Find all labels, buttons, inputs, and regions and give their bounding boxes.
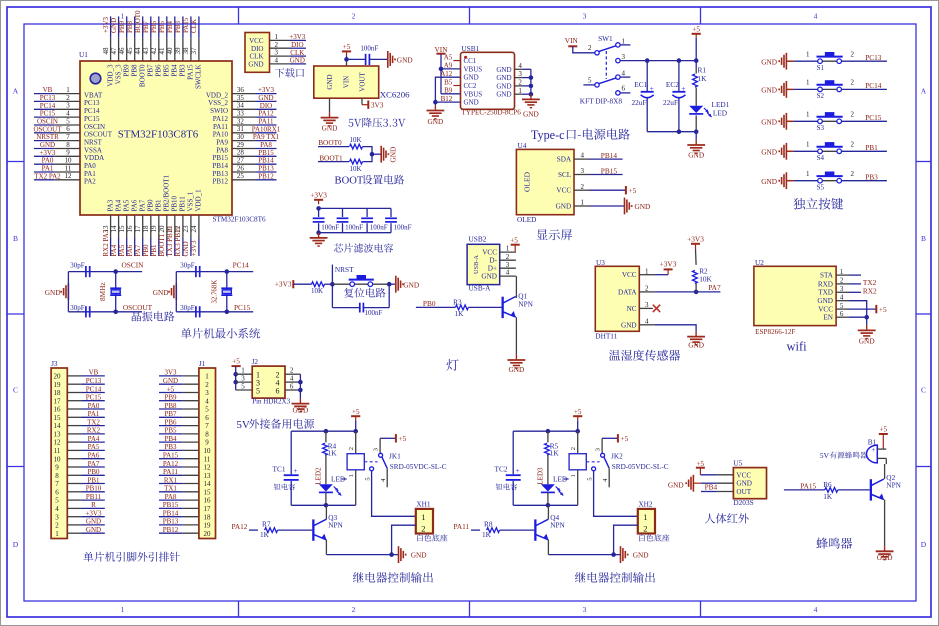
reset push button — [332, 275, 389, 287]
svg-text:RX2 PA3: RX2 PA3 — [102, 229, 110, 256]
svg-text:1K: 1K — [455, 309, 465, 318]
svg-text:GND: GND — [877, 553, 893, 562]
svg-text:PB5: PB5 — [158, 20, 166, 33]
svg-text:LED2: LED2 — [315, 467, 323, 485]
svg-text:RX2: RX2 — [863, 287, 877, 296]
svg-text:GND: GND — [248, 61, 263, 69]
USB2 pin 3 — [500, 261, 516, 269]
svg-text:+3V3: +3V3 — [687, 234, 704, 243]
svg-text:4: 4 — [602, 478, 609, 482]
svg-text:VCC: VCC — [818, 306, 833, 314]
svg-text:47: 47 — [110, 47, 118, 55]
svg-text:16: 16 — [204, 497, 212, 505]
svg-text:+: + — [871, 446, 875, 454]
svg-text:PB6: PB6 — [155, 64, 163, 77]
svg-text:30pF: 30pF — [70, 261, 85, 269]
svg-text:PB1: PB1 — [865, 143, 878, 152]
svg-text:+3V3: +3V3 — [102, 16, 110, 33]
DHT11 pin1 VCC to +3V3 — [639, 260, 676, 276]
svg-text:PB1: PB1 — [155, 199, 163, 212]
junction LED bottom — [694, 129, 699, 134]
svg-text:GND: GND — [496, 82, 511, 90]
svg-text:2: 2 — [588, 44, 592, 52]
junction R top — [546, 429, 551, 434]
svg-text:2: 2 — [66, 94, 70, 102]
svg-text:Type-c: Type-c — [531, 128, 565, 142]
svg-text:+5: +5 — [692, 25, 700, 34]
svg-text:GND: GND — [86, 526, 101, 534]
ground below Q2 — [876, 546, 894, 562]
wifi pin 1 — [836, 268, 849, 276]
svg-text:4: 4 — [380, 478, 387, 482]
svg-text:GND: GND — [817, 297, 833, 305]
svg-text:PB12: PB12 — [212, 178, 228, 186]
J3 pin 11 net PA5 — [67, 443, 105, 451]
svg-text:U5: U5 — [733, 459, 742, 468]
USB1 GND pin 2 — [515, 79, 531, 87]
svg-text:1: 1 — [806, 79, 810, 87]
power +5 above relay JK2 — [573, 407, 582, 420]
wifi STA wire — [849, 274, 861, 276]
svg-text:12: 12 — [65, 172, 73, 180]
svg-text:20: 20 — [158, 225, 166, 233]
filter cap bus bottom — [319, 232, 391, 234]
svg-text:GND: GND — [736, 480, 752, 488]
svg-text:DIO: DIO — [251, 45, 263, 53]
wires USB1 left pins — [435, 61, 460, 106]
svg-text:3: 3 — [594, 448, 601, 451]
svg-text:29: 29 — [237, 141, 245, 149]
svg-text:PA6: PA6 — [88, 452, 100, 460]
svg-text:+5: +5 — [510, 235, 518, 244]
J1 pin 2 net GND — [159, 377, 199, 385]
svg-text:PB3: PB3 — [164, 443, 177, 451]
svg-text:20: 20 — [54, 373, 62, 381]
svg-text:GND: GND — [761, 147, 777, 156]
regulator VOUT to 3V3 — [362, 98, 384, 109]
J1 pin 1 net 3V3 — [159, 369, 199, 377]
J1 pin 7 net PB6 — [159, 418, 199, 426]
transistor Q4 NPN — [534, 505, 565, 554]
svg-text:DIO: DIO — [260, 102, 272, 110]
svg-text:S1: S1 — [817, 64, 825, 72]
capacitor EC2 22uF electrolytic — [663, 61, 686, 132]
svg-text:1K: 1K — [482, 530, 492, 539]
svg-text:2: 2 — [581, 183, 585, 191]
junction LED bottom — [324, 503, 329, 508]
svg-text:2: 2 — [645, 285, 649, 293]
resistor R3 1K — [453, 298, 501, 319]
svg-text:31: 31 — [237, 125, 245, 133]
svg-text:GND: GND — [761, 117, 777, 126]
wire relay top rail — [291, 420, 356, 431]
USB2 pin 2 — [500, 253, 516, 261]
MCU pin 7 (NRST) left, net NRSTR — [34, 133, 103, 146]
wire XH2 pin2 to gnd rail — [614, 525, 638, 554]
power VIN at type-c — [435, 45, 449, 54]
svg-text:PC14: PC14 — [84, 107, 100, 115]
svg-text:32: 32 — [237, 117, 245, 125]
svg-text:PB12: PB12 — [163, 526, 179, 534]
title 蜂鸣器 — [816, 538, 827, 549]
svg-text:PC13: PC13 — [40, 94, 56, 102]
svg-text:PA3: PA3 — [106, 199, 114, 211]
MCU pin 41 (PB5) top, net PB5 — [158, 16, 171, 76]
pin header J2 HDR2X3 body — [252, 357, 291, 406]
MCU pin 25 (PB12) right, net PB12 — [212, 172, 276, 185]
svg-text:4: 4 — [66, 110, 70, 118]
svg-text:EC2: EC2 — [666, 80, 679, 89]
svg-text:CLK: CLK — [250, 53, 264, 61]
svg-text:CLK: CLK — [290, 49, 304, 57]
svg-text:PA5: PA5 — [88, 443, 100, 451]
svg-text:2: 2 — [840, 277, 844, 285]
svg-text:1K: 1K — [550, 448, 560, 457]
capacitor TC1 tantalum — [273, 431, 299, 505]
ground below type-c left — [427, 105, 445, 126]
svg-text:1K: 1K — [823, 492, 833, 501]
svg-text:20: 20 — [204, 530, 212, 538]
relay JK1 contacts — [364, 434, 446, 487]
svg-text:TYPEC-250D-8CP6: TYPEC-250D-8CP6 — [461, 109, 521, 117]
reset cap loop wires — [332, 284, 389, 307]
title 复位电路 — [344, 288, 354, 298]
crystal frame wires — [176, 272, 227, 312]
svg-text:PB10: PB10 — [171, 195, 179, 211]
svg-text:PB15: PB15 — [212, 154, 228, 162]
svg-text:14: 14 — [110, 225, 118, 233]
svg-text:PB2/BOOT1: PB2/BOOT1 — [163, 174, 171, 211]
svg-text:D: D — [13, 540, 19, 549]
net PC14 wire — [227, 260, 253, 271]
wire buzzer to Q2 collector — [885, 458, 887, 464]
svg-text:6: 6 — [55, 488, 59, 496]
svg-text:4: 4 — [814, 12, 818, 21]
svg-text:PC14: PC14 — [233, 260, 250, 269]
svg-text:GND: GND — [556, 203, 572, 211]
svg-text:C: C — [13, 386, 18, 395]
svg-text:4: 4 — [205, 397, 209, 405]
svg-text:10: 10 — [65, 157, 73, 165]
power +3V3 at reset — [275, 280, 312, 289]
svg-text:GND: GND — [496, 74, 511, 82]
download header pin 4 net GND — [270, 57, 307, 65]
svg-text:2: 2 — [275, 41, 279, 49]
svg-text:+: + — [293, 466, 297, 475]
J1 pin 19 net PB13 — [159, 518, 199, 526]
svg-text:17: 17 — [204, 505, 212, 513]
svg-text:OSCOUT: OSCOUT — [33, 125, 62, 133]
buzzer B1 — [866, 438, 886, 463]
switch SW1 KFT DIP-8X8 — [580, 34, 631, 105]
svg-text:3V3: 3V3 — [164, 369, 177, 377]
svg-text:NRSTR: NRSTR — [36, 133, 59, 141]
svg-text:1: 1 — [806, 111, 810, 119]
title 独立按键 — [793, 198, 805, 210]
crystal 32.768K — [211, 280, 232, 304]
svg-text:GND: GND — [86, 518, 101, 526]
svg-text:2: 2 — [518, 79, 522, 87]
svg-text:PA12: PA12 — [163, 460, 179, 468]
ground right of cap — [388, 51, 413, 68]
svg-text:PB13: PB13 — [212, 170, 228, 178]
MCU pin 39 (PB3) top, net PB3 — [174, 16, 187, 76]
svg-text:ESP8266-12F: ESP8266-12F — [755, 328, 795, 336]
svg-text:PB4: PB4 — [705, 483, 718, 492]
USB1 GND pin 3 — [515, 70, 531, 78]
transistor Q3 NPN — [312, 505, 343, 554]
wire SW1 pin3 to power rail — [620, 60, 696, 62]
label 白色底座 — [639, 534, 645, 541]
svg-text:3: 3 — [205, 389, 209, 397]
J2 right pin 4 wire — [285, 375, 300, 383]
svg-text:PA8: PA8 — [260, 141, 272, 149]
svg-text:2: 2 — [506, 253, 510, 261]
svg-text:+5: +5 — [167, 385, 175, 393]
label 钽电容 — [274, 483, 281, 489]
svg-text:26: 26 — [237, 164, 245, 172]
svg-text:VBAT: VBAT — [84, 91, 103, 99]
svg-text:100nF: 100nF — [365, 309, 383, 317]
power +5 at regulator input — [342, 42, 351, 55]
MCU pin 16 (PA6) bottom, net PA6 — [126, 199, 139, 256]
svg-text:6: 6 — [622, 85, 626, 93]
svg-text:16: 16 — [54, 406, 62, 414]
J3 pin 20 net VB — [67, 369, 105, 377]
USB1 GND pin 4 — [515, 62, 531, 70]
J1 pin 13 net PA11 — [159, 468, 199, 476]
svg-text:1K: 1K — [698, 74, 708, 83]
svg-text:VDD_3: VDD_3 — [106, 64, 114, 87]
title 人体红外 — [705, 513, 715, 523]
junction crystal top — [225, 269, 230, 274]
svg-text:GND: GND — [110, 18, 118, 33]
J1 pin 4 net PB9 — [159, 394, 199, 402]
ground at crystal — [153, 283, 177, 300]
svg-text:GND: GND — [633, 551, 649, 560]
J1 pin 3 net +5 — [159, 385, 199, 393]
capacitor 30pF top — [180, 261, 200, 277]
svg-text:PA12: PA12 — [213, 115, 229, 123]
svg-text:38: 38 — [182, 47, 190, 55]
net NRST — [332, 265, 354, 285]
svg-text:B9: B9 — [444, 87, 453, 95]
svg-text:RX3 PB11: RX3 PB11 — [174, 226, 182, 257]
svg-text:8: 8 — [205, 431, 209, 439]
junction R top — [324, 429, 329, 434]
svg-text:J3: J3 — [51, 359, 58, 368]
svg-text:GND: GND — [182, 241, 190, 256]
svg-text:GND: GND — [668, 481, 684, 490]
MCU pin 10 (PA0) left, net PA0 — [34, 157, 96, 170]
svg-text:1: 1 — [55, 530, 59, 538]
svg-text:35: 35 — [237, 94, 245, 102]
svg-text:VBUS: VBUS — [464, 90, 483, 98]
svg-text:10: 10 — [54, 455, 62, 463]
J2 left pin 5 wire — [236, 383, 253, 391]
svg-text:42: 42 — [150, 47, 158, 55]
svg-text:DIO: DIO — [291, 41, 303, 49]
svg-text:PB11: PB11 — [86, 493, 102, 501]
svg-text:PA7: PA7 — [134, 244, 142, 256]
junction J2 p6 — [298, 388, 303, 393]
download header pin 2 net DIO — [270, 41, 307, 49]
MCU pin 3 (PC14) left, net PC14 — [34, 102, 100, 115]
svg-text:GND: GND — [292, 406, 308, 415]
svg-text:S5: S5 — [817, 183, 825, 191]
svg-text:+3V3: +3V3 — [258, 86, 275, 94]
svg-text:OLED: OLED — [517, 215, 536, 224]
svg-text:15: 15 — [54, 414, 62, 422]
svg-text:6: 6 — [205, 414, 209, 422]
junction crystal bottom — [225, 310, 230, 315]
svg-text:+5: +5 — [879, 305, 887, 314]
svg-text:SWCLK: SWCLK — [195, 65, 203, 90]
svg-text:+5: +5 — [352, 407, 360, 416]
junction gnd rail — [389, 552, 394, 557]
svg-text:PB5: PB5 — [163, 64, 171, 77]
svg-text:PC13: PC13 — [86, 377, 102, 385]
title 芯片滤波电容 — [334, 243, 343, 252]
capacitor 30pF top — [70, 261, 90, 277]
svg-text:BOOT0: BOOT0 — [134, 10, 142, 33]
junction reset right — [387, 282, 392, 287]
svg-text:XH1: XH1 — [416, 499, 431, 508]
MCU pin 21 (PB10) bottom, net TX3 PB10 — [166, 195, 179, 256]
svg-text:4: 4 — [814, 605, 818, 614]
svg-text:1K: 1K — [328, 448, 338, 457]
svg-text:PB1: PB1 — [150, 244, 158, 257]
svg-text:GND: GND — [464, 99, 479, 107]
push button S4 to PB1 — [761, 141, 887, 162]
title 下载口 — [275, 68, 284, 77]
svg-text:PA5: PA5 — [123, 199, 131, 211]
svg-text:U4: U4 — [518, 141, 527, 150]
svg-text:+5: +5 — [696, 459, 704, 468]
svg-text:PC14: PC14 — [40, 102, 56, 110]
download header P1 (SWD) — [245, 33, 270, 73]
svg-text:CC2: CC2 — [464, 82, 477, 90]
J1 pin 14 net RX1 — [159, 476, 199, 484]
svg-text:PC14: PC14 — [86, 385, 102, 393]
svg-text:PA12: PA12 — [232, 522, 248, 531]
svg-text:+3V3: +3V3 — [39, 149, 56, 157]
svg-text:D+: D+ — [488, 265, 497, 273]
capacitor C3 100nF (filter) — [361, 208, 388, 232]
svg-text:GND: GND — [322, 123, 338, 132]
svg-text:PA15: PA15 — [187, 64, 195, 80]
ground at relay output — [399, 546, 427, 563]
label 5V有源蜂鸣器 — [820, 451, 868, 460]
svg-text:PB8: PB8 — [126, 20, 134, 33]
wire BOOT1 resistor to junction — [363, 154, 373, 161]
svg-text:GND: GND — [163, 377, 178, 385]
svg-text:PB6: PB6 — [150, 20, 158, 33]
svg-text:+: + — [515, 466, 519, 475]
svg-text:18: 18 — [204, 513, 212, 521]
svg-text:10K: 10K — [311, 287, 323, 295]
capacitor C2 100nF (filter) — [337, 208, 364, 232]
svg-text:4: 4 — [290, 375, 294, 383]
socket XH2 body — [638, 499, 655, 533]
J2 right pin 2 wire — [285, 367, 300, 375]
svg-text:PB1: PB1 — [87, 476, 100, 484]
svg-text:4: 4 — [840, 294, 844, 302]
junction EC1 — [645, 58, 650, 63]
resistor R10 10K (BOOT1) — [349, 159, 362, 173]
svg-text:PA7: PA7 — [139, 199, 147, 211]
svg-text:USB-A: USB-A — [473, 255, 480, 274]
svg-text:BOOT1: BOOT1 — [158, 233, 166, 256]
svg-text:PB8: PB8 — [164, 402, 177, 410]
svg-text:VDDA: VDDA — [84, 154, 104, 162]
svg-text:PB9: PB9 — [123, 64, 131, 77]
power VIN at SW1 — [565, 36, 595, 53]
MCU pin 19 (PB1) bottom, net PB1 — [150, 199, 163, 257]
svg-text:PC15: PC15 — [234, 303, 251, 312]
junction at A9 VBUS — [439, 67, 444, 72]
svg-text:TX3 PB10: TX3 PB10 — [166, 226, 174, 257]
svg-text:100nF: 100nF — [345, 223, 363, 231]
filter cap bus top — [319, 207, 391, 209]
svg-text:VSSA: VSSA — [84, 146, 102, 154]
wire emitter to gnd — [548, 554, 620, 556]
junction filter bottom left — [316, 230, 321, 235]
svg-text:33: 33 — [237, 110, 245, 118]
MCU pin 9 (VDDA) left, net +3V3 — [34, 149, 104, 162]
svg-text:PC15: PC15 — [86, 394, 102, 402]
svg-text:45: 45 — [126, 47, 134, 55]
svg-text:U1: U1 — [79, 50, 88, 59]
junction LED bottom — [546, 503, 551, 508]
title 5V外接备用电源 — [236, 419, 314, 431]
LED LED2 — [315, 467, 347, 505]
J3 pin 8 net PB0 — [67, 468, 105, 476]
power +5 above relay JK1 — [351, 407, 360, 420]
svg-text:+3V3: +3V3 — [289, 33, 306, 41]
MCU pin 15 (PA5) bottom, net PA5 — [118, 199, 131, 256]
svg-text:2: 2 — [851, 111, 855, 119]
title 继电器控制输出 — [353, 572, 364, 582]
svg-text:3: 3 — [581, 167, 585, 175]
power +3V3 at filter caps — [310, 191, 327, 205]
J3 pin 12 net PA4 — [67, 435, 105, 443]
svg-text:NPN: NPN — [886, 481, 901, 490]
svg-text:STM32F103C8T6: STM32F103C8T6 — [213, 216, 267, 224]
svg-text:4: 4 — [55, 505, 59, 513]
USB2 pin 4 — [500, 269, 516, 277]
net PC15 wire — [227, 303, 253, 312]
svg-text:GND: GND — [688, 340, 704, 349]
svg-text:D-: D- — [489, 257, 497, 265]
svg-text:8: 8 — [55, 472, 59, 480]
svg-text:100nF: 100nF — [370, 223, 388, 231]
svg-text:PA15: PA15 — [800, 482, 816, 491]
svg-text:3: 3 — [372, 448, 379, 451]
J1 pin 11 net PA15 — [159, 452, 199, 460]
junction J2 p1 — [233, 372, 238, 377]
svg-text:14: 14 — [204, 480, 212, 488]
DHT11 sensor U3 body — [595, 258, 639, 341]
svg-text:+5: +5 — [621, 434, 629, 443]
junction gnd rail — [611, 552, 616, 557]
svg-text:GND: GND — [326, 74, 334, 89]
wire Q1 emitter to ground — [515, 317, 517, 355]
svg-text:SRD-05VDC-SL-C: SRD-05VDC-SL-C — [390, 463, 447, 471]
svg-text:GND: GND — [290, 57, 305, 65]
svg-text:1: 1 — [421, 512, 425, 522]
svg-text:3: 3 — [275, 49, 279, 57]
